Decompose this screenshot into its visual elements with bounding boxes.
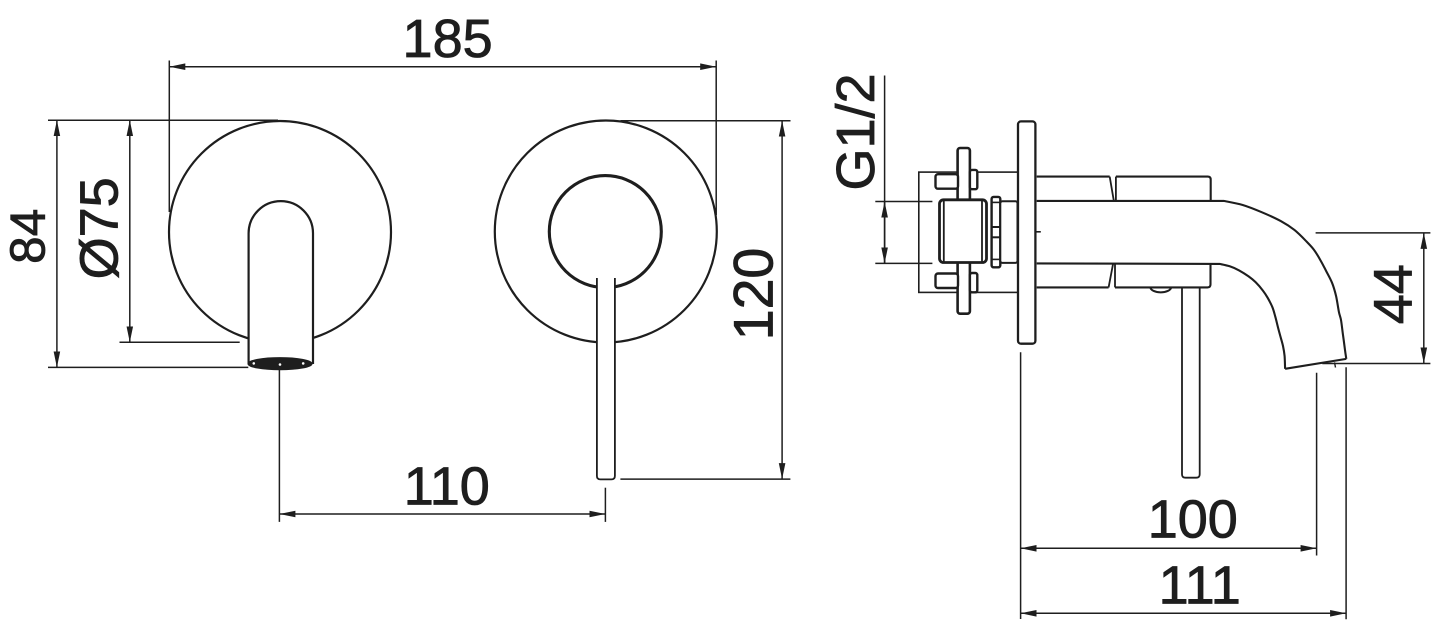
dim D75 line <box>129 120 131 342</box>
dim 100 line <box>1021 547 1317 549</box>
wall extension line (100/111 left) <box>1020 352 1022 619</box>
cartridge inner wall left <box>943 201 945 262</box>
bottom extension line 120 <box>620 478 790 480</box>
aerator dots <box>253 362 256 365</box>
escutcheon circle left <box>169 121 391 343</box>
mounting bracket vertical bar <box>958 148 970 314</box>
threaded bolt strip <box>992 197 1001 267</box>
spout front view (inverted U over circle) <box>249 201 313 364</box>
dim 110 extension line left (spout axis) <box>278 369 280 522</box>
body cylinder bottom edge <box>1037 263 1211 287</box>
outlet axis extension line (100 right) <box>1316 373 1318 556</box>
svg-text:111: 111 <box>1159 556 1241 616</box>
body joint notch bottom <box>1109 264 1115 287</box>
cartridge body <box>940 200 987 263</box>
rough-in box <box>919 172 1018 292</box>
spout outlet face <box>1285 359 1346 369</box>
dim 84 line <box>56 120 58 367</box>
dim 185 line <box>169 66 716 68</box>
svg-text:Ø75: Ø75 <box>70 177 130 279</box>
svg-text:84: 84 <box>1 209 56 264</box>
inner ring (handle base) <box>549 176 661 288</box>
bracket tab top-right <box>970 170 977 189</box>
bottom extension line 84 <box>48 366 248 368</box>
spout side view top curve <box>1037 201 1347 359</box>
dim G1/2 arrows <box>884 202 886 264</box>
ring nut <box>1000 201 1017 263</box>
aerator edge tick <box>1335 362 1336 367</box>
dim 110 line <box>279 513 605 515</box>
svg-text:120: 120 <box>723 248 785 341</box>
wall plate (escutcheon side) <box>1018 121 1035 343</box>
bracket member top-left <box>936 174 959 189</box>
dim G1/2 extension bottom <box>875 262 932 264</box>
dim 111 line <box>1021 612 1347 614</box>
dim G1/2 leader line <box>884 76 886 264</box>
top extension line right (120) <box>621 120 791 122</box>
svg-text:G1/2: G1/2 <box>826 73 886 190</box>
dim 44 line <box>1423 233 1425 364</box>
dim 44 extension bottom <box>1322 363 1430 365</box>
top extension line left (84 / D75) <box>48 119 278 121</box>
cartridge inner wall right <box>981 201 983 262</box>
spout tip extension line (111 right) <box>1345 367 1347 619</box>
handle lever side view <box>1182 289 1200 478</box>
svg-text:185: 185 <box>403 9 493 69</box>
dim 110 extension line right (handle axis) <box>604 488 606 522</box>
svg-text:100: 100 <box>1148 490 1238 550</box>
handle lever front <box>597 278 615 479</box>
svg-text:110: 110 <box>404 457 490 517</box>
dim 44 extension top <box>1316 232 1431 234</box>
body joint notch top <box>1110 177 1116 201</box>
dim 120 line <box>781 121 783 479</box>
spout side view bottom curve <box>1037 263 1285 368</box>
svg-text:44: 44 <box>1364 264 1424 324</box>
joint tick right of plate <box>1036 231 1041 233</box>
dim 185 extension line right <box>715 61 717 216</box>
lever pivot bump <box>1150 287 1171 292</box>
escutcheon circle right <box>495 121 717 343</box>
bracket member bottom-left <box>936 274 959 289</box>
aerator ellipse <box>248 358 312 370</box>
bracket tab bottom-right <box>970 273 977 292</box>
body cylinder top edge <box>1037 177 1211 201</box>
bottom extension line D75 <box>120 341 240 343</box>
dim G1/2 extension top <box>875 201 932 203</box>
dim 185 extension line left <box>168 61 170 213</box>
